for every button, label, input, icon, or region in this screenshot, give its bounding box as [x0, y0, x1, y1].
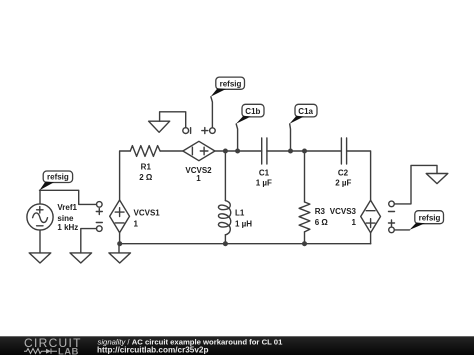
- label plus VCVS3 input: [389, 220, 395, 226]
- svg-text:1 µH: 1 µH: [235, 220, 252, 229]
- op VCVS2 diamond: [183, 141, 215, 160]
- node dot L1 bottom: [223, 241, 228, 246]
- terminal VCVS1 nc+: [97, 202, 103, 208]
- ground middle: [70, 253, 92, 263]
- svg-text:Vref1: Vref1: [57, 203, 77, 212]
- svg-text:C1: C1: [259, 169, 270, 178]
- flag refsig at VCVS2 input: [211, 77, 245, 97]
- wire L1 bottom: [224, 235, 226, 244]
- wire VCVS3 bottom: [370, 233, 372, 244]
- label plus VCVS1 input: [96, 209, 102, 215]
- svg-text:sine: sine: [57, 214, 74, 223]
- label minus VCVS2 input: [190, 128, 192, 134]
- flags: [40, 77, 444, 230]
- wire top-left corner from VCVS1 top to R1: [120, 151, 131, 200]
- label minus VCVS3 input: [389, 211, 395, 213]
- svg-text:C1b: C1b: [245, 107, 260, 116]
- node dot R3 top: [302, 149, 307, 154]
- Vref1 plus: [37, 207, 43, 213]
- terminal VCVS3 nc-: [389, 201, 395, 207]
- ground top: [149, 121, 170, 132]
- wire L1 branch top: [224, 151, 226, 201]
- ground under VCVS1: [109, 244, 131, 263]
- wire VCVS2 nc+ to refsig flag: [211, 97, 213, 128]
- flag refsig at VCVS3 input: [410, 211, 444, 230]
- wire VCVS2 nc- to ground: [160, 112, 186, 128]
- VCVS2 minus bar: [191, 147, 193, 155]
- terminal VCVS2 nc+: [210, 128, 216, 134]
- wire VCVS2 to C1: [215, 150, 262, 152]
- svg-text:refsig: refsig: [220, 79, 242, 88]
- logo resistor zigzag and diode: [24, 349, 57, 354]
- wire R3 branch top: [304, 151, 306, 202]
- bottom bar: [0, 336, 474, 355]
- svg-text:VCVS1: VCVS1: [134, 209, 161, 218]
- wire R1 to VCVS2: [160, 150, 183, 152]
- flag C1b: [236, 104, 264, 124]
- svg-text:C1a: C1a: [298, 107, 313, 116]
- svg-text:1: 1: [196, 174, 201, 183]
- svg-text:2 µF: 2 µF: [335, 179, 351, 188]
- wire C1 to C2: [267, 150, 342, 152]
- svg-text:refsig: refsig: [419, 213, 441, 222]
- wire R3 bottom: [304, 232, 306, 244]
- VCVS3 minus: [366, 210, 375, 212]
- op VCVS1 diamond: [110, 200, 130, 233]
- svg-text:VCVS3: VCVS3: [330, 207, 357, 216]
- svg-text:http://circuitlab.com/cr35v2p: http://circuitlab.com/cr35v2p: [97, 346, 208, 355]
- VCVS3 plus: [366, 219, 375, 228]
- label plus VCVS2 input: [202, 128, 208, 134]
- op VCVS3 diamond: [361, 200, 381, 233]
- VCVS1 minus: [115, 222, 124, 224]
- source Vref1 circle: [27, 204, 53, 230]
- ground under Vref1: [29, 253, 51, 263]
- wire C1b tap: [236, 124, 237, 151]
- wire VCVS3 nc+ to refsig flag: [394, 229, 409, 231]
- component labels: [57, 163, 356, 233]
- capacitor C2 plates: [341, 138, 346, 164]
- node dot R3 bottom: [302, 241, 307, 246]
- label minus VCVS1 input: [96, 222, 102, 224]
- wire Vref1 top: [39, 190, 41, 204]
- wire VCVS1 bottom: [119, 233, 121, 244]
- inductor L1 coil: [218, 201, 230, 235]
- svg-text:6 Ω: 6 Ω: [315, 218, 329, 227]
- flag C1a: [290, 104, 318, 124]
- Vref1 minus: [37, 225, 43, 227]
- node dot C1b: [235, 149, 240, 154]
- Vref1 sine: [33, 213, 48, 223]
- svg-text:1: 1: [352, 218, 357, 227]
- terminal VCVS2 nc-: [183, 128, 189, 134]
- terminal VCVS3 nc+: [389, 227, 395, 233]
- terminal VCVS1 nc-: [97, 226, 103, 232]
- svg-text:L1: L1: [235, 209, 245, 218]
- wire C2 to VCVS3: [347, 151, 371, 200]
- VCVS2 plus sign: [200, 147, 208, 155]
- capacitor C1 plates: [262, 138, 267, 164]
- svg-text:refsig: refsig: [47, 173, 69, 182]
- wire VCVS1 nc- to ground: [81, 229, 97, 253]
- resistor R1: [130, 146, 160, 157]
- svg-text:C2: C2: [338, 169, 349, 178]
- node dot VCVS1 bottom: [117, 241, 122, 246]
- node dot L1 top: [223, 149, 228, 154]
- svg-text:1 µF: 1 µF: [256, 179, 272, 188]
- VCVS1 plus: [115, 208, 124, 217]
- svg-text:R1: R1: [141, 163, 152, 172]
- node dot C1a: [288, 149, 293, 154]
- wire Vref1 bottom: [39, 230, 41, 253]
- resistor R3: [299, 202, 310, 232]
- wire C1a tap: [289, 124, 292, 151]
- wire node refsig to VCVS1 plus input: [40, 190, 97, 204]
- svg-text:1: 1: [134, 220, 139, 229]
- flag refsig at Vref1: [40, 171, 73, 190]
- svg-text:LAB: LAB: [58, 347, 79, 355]
- wire VCVS3 nc- to ground: [394, 165, 437, 204]
- wire bottom rail: [119, 243, 371, 245]
- ground top-right: [426, 174, 448, 184]
- svg-text:2 Ω: 2 Ω: [139, 173, 153, 182]
- svg-text:1 kHz: 1 kHz: [57, 223, 78, 232]
- svg-text:R3: R3: [315, 207, 326, 216]
- junction dots: [117, 149, 307, 247]
